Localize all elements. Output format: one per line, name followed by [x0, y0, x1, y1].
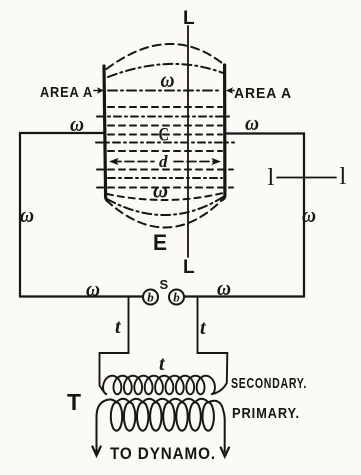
svg-text:l: l — [268, 165, 275, 191]
field line row y178 — [108, 177, 222, 179]
svg-text:ω: ω — [217, 276, 231, 300]
arrow AREA A left — [94, 87, 104, 93]
field line row y125 — [108, 125, 222, 127]
svg-text:ω: ω — [245, 111, 259, 135]
svg-text:d: d — [159, 152, 168, 171]
svg-text:AREA A: AREA A — [234, 85, 292, 102]
svg-text:ω: ω — [70, 112, 84, 136]
svg-text:C: C — [159, 125, 170, 146]
svg-text:b: b — [147, 290, 154, 305]
field line row y90 (with AREA A arrows) — [108, 90, 222, 92]
field line row y134 — [108, 134, 222, 136]
field line bottom sag — [107, 193, 223, 200]
svg-text:ω: ω — [86, 277, 100, 301]
wire bottom left segment — [20, 295, 143, 297]
primary coil winding — [97, 399, 225, 452]
field line inner top (dash-dot curve) — [108, 64, 223, 77]
wire bottom right segment — [184, 295, 304, 297]
secondary coil winding with leads — [100, 297, 228, 395]
svg-text:ω: ω — [20, 203, 34, 227]
svg-text:PRIMARY.: PRIMARY. — [232, 405, 300, 422]
field line row y187 — [97, 187, 233, 189]
svg-text:AREA A: AREA A — [40, 84, 93, 101]
svg-text:L: L — [183, 257, 196, 278]
capacitor plate right — [223, 65, 225, 200]
field line row y116 — [97, 116, 233, 118]
field line outer bottom (dashed curve) — [106, 198, 224, 228]
field line row y169 — [97, 169, 233, 171]
axis line L — [187, 26, 189, 257]
svg-text:ω: ω — [153, 178, 168, 203]
arrow down left — [92, 447, 100, 456]
wire top left — [20, 133, 104, 297]
dimension arrow d — [109, 158, 221, 165]
field line row y151 — [108, 150, 222, 152]
svg-text:T: T — [67, 389, 82, 415]
wire top right — [226, 134, 304, 297]
dimension line l — [277, 177, 336, 179]
svg-text:SECONDARY.: SECONDARY. — [231, 375, 307, 392]
svg-text:S: S — [160, 277, 170, 292]
svg-text:TO DYNAMO.: TO DYNAMO. — [110, 444, 216, 463]
svg-text:ω: ω — [302, 203, 316, 227]
svg-text:l: l — [340, 164, 347, 190]
field line outer top (dashed curve) — [107, 44, 225, 69]
svg-text:b: b — [173, 290, 180, 305]
arrow down right — [221, 448, 229, 457]
svg-text:E: E — [153, 230, 168, 255]
spark ball b left — [143, 290, 158, 305]
svg-text:ω: ω — [161, 67, 175, 92]
field line row y142 (C row) — [96, 142, 234, 144]
svg-text:L: L — [183, 8, 196, 29]
arrow AREA A right — [226, 87, 234, 93]
field line inner bottom (dash-dot curve) — [107, 197, 223, 215]
capacitor plate left — [104, 66, 108, 201]
spark ball b right — [169, 290, 184, 305]
field line row y107 — [108, 106, 222, 108]
